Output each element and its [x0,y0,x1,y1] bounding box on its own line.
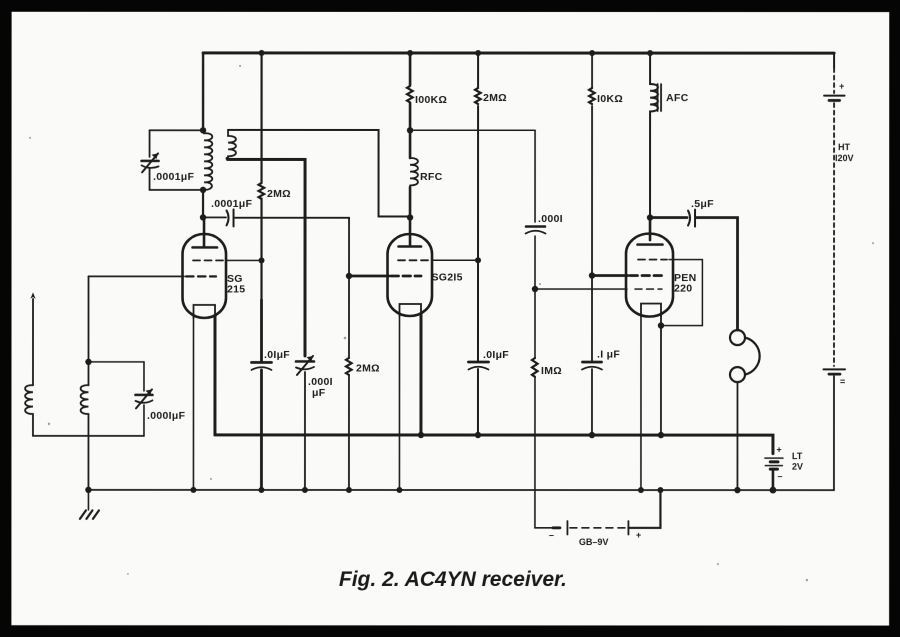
wire: coupling cap to grid leak top [235,218,349,219]
svg-text:.0IμF: .0IμF [264,349,290,361]
node: V2 filament junction on LT+ rail [418,432,424,438]
svg-text:.0IμF: .0IμF [483,349,509,361]
tube V1 control grid (dashed) [186,275,216,277]
wire: reaction coil top to V2 anode (right then down) [228,130,410,217]
svg-text:+: + [636,530,641,540]
svg-text:220: 220 [674,283,692,295]
wire: V2 control grid from grid leak (thick) [349,275,389,278]
wire: .5uF to phones [696,218,737,331]
svg-text:2MΩ: 2MΩ [267,188,291,200]
wire: V2 screen to 2M/.01 node [432,259,478,261]
svg-text:I0KΩ: I0KΩ [597,93,623,105]
node: top rail junction at 10K [589,50,595,56]
node: phones on earth rail [734,487,740,493]
node: top rail junction at 2M (V2 screen) [475,50,481,56]
capacitor .01uF (V1 screen bypass) [251,361,271,364]
node: V3 grid-leak junction [532,286,538,292]
svg-text:I20V: I20V [835,153,854,163]
tube V2 SG215 envelope [388,234,433,316]
wire: tank box bottom edge [150,189,204,191]
tuned anode tank box (top edge) [150,129,204,131]
wire: V1 filament right leg to LT+ rail (thick) [213,316,216,435]
capacitor .5uF (output coupling) [650,216,687,219]
tube V3 PEN220 envelope [626,234,673,317]
node: screen strap on filament leg [658,322,664,328]
resistor 1M ohm (output grid leak) [532,358,538,377]
wire: V2 screen feed line x=478 [477,53,479,435]
node: reaction cap on earth rail [302,487,308,493]
svg-text:.0001μF: .0001μF [153,171,195,183]
node: GB+ on earth rail [657,487,663,493]
node: V2 screen junction [475,257,481,263]
wire: V3 filament right leg to LT+ rail [660,314,662,435]
node: grid leak on earth rail [346,487,352,493]
svg-text:2V: 2V [792,462,803,472]
svg-text:.000IμF: .000IμF [147,410,186,422]
node: V1 screen junction [259,257,265,263]
svg-text:=: = [840,377,845,387]
node: tank bottom junction [200,187,206,193]
node: V2 anode junction [407,214,413,220]
wire: V1 anode to coupling cap [203,216,226,218]
inductor RFC [410,158,418,185]
svg-text:.0001μF: .0001μF [211,198,253,210]
node: V3 filament on earth rail [638,487,644,493]
svg-text:+: + [839,81,844,91]
wire: HT+ top rail [203,51,834,54]
svg-text:–: – [777,471,782,481]
tube V3 control grid (thick dashed) [630,274,663,277]
svg-text:RFC: RFC [420,171,443,183]
wire: V2 filament right leg to LT+ rail (thick) [419,314,422,435]
node: V3 control grid junction [589,272,595,278]
svg-text:Fig. 2. AC4YN receiver.: Fig. 2. AC4YN receiver. [339,568,567,591]
wire: V1 screen to 2M/.01 node [226,259,262,261]
tube V1 filament [194,305,216,318]
ground symbol [87,490,89,510]
node: tank top junction [200,127,206,133]
wire: aerial coil to tank bottom [33,435,144,437]
wire: reaction cap to earth rail [304,372,306,490]
aerial (antenna) lead with arrow [32,299,34,385]
svg-text:2MΩ: 2MΩ [483,92,507,104]
inductor: aerial coupling coil [25,385,33,436]
wire: LT+ rail (thick) [215,435,773,454]
node: LT- on earth rail [770,487,777,494]
node: V1 filament on earth rail [190,487,196,493]
tube V3 filament [641,304,661,317]
svg-text:2MΩ: 2MΩ [356,362,380,374]
svg-text:HT: HT [838,142,851,152]
svg-text:215: 215 [227,283,245,295]
tube V2 filament [400,304,422,316]
variable capacitor .0001uF (aerial tuning) [135,389,152,408]
wire: aerial tank right side upper [143,362,145,391]
svg-text:GB–9V: GB–9V [579,537,609,547]
wire: grid leak line x=349 [348,218,350,490]
node: V3 anode junction [647,214,653,220]
tube V3 inner grid (dashed) [635,288,662,290]
svg-text:.000I: .000I [538,213,563,225]
node: V2 filament on earth rail [396,487,402,493]
wire: V3 screen strap to cathode (box) [662,260,702,326]
wire: tank box left side upper [149,130,151,157]
tube V3 screen grid (dashed) [638,259,667,261]
resistor 2M ohm (detector grid leak) [346,358,352,375]
svg-text:I00KΩ: I00KΩ [415,94,447,106]
svg-text:.I μF: .I μF [597,349,620,361]
scan speckles [29,65,874,581]
node: .01uF on earth rail [258,487,264,493]
resistor 2M ohm (V1 screen feed) [259,183,265,199]
node: top rail junction at AFC [647,50,653,56]
tube V2 screen grid (dashed) [398,259,430,261]
node: .01uF on LT+ rail [475,432,481,438]
variable capacitor .0001uF (reaction) [296,356,314,375]
wire: output grid coupling line x=535 [535,130,553,528]
wire: V1 control grid from aerial tank [89,275,184,277]
svg-text:+: + [776,445,781,455]
wire: aerial tank right side lower [143,405,145,436]
node: earth junction [85,487,91,493]
resistor 10K ohm [589,88,595,104]
node: junction 100K / RFC / AFC coupling [407,127,413,133]
wire: HT+ feed down to tuned-anode coil [202,53,204,130]
battery GB -9V (grid bias) [553,526,560,529]
battery HT 120V [833,53,835,68]
tube V2 anode stem and plate [399,217,422,246]
resistor 2M ohm (V2 screen feed) [475,88,481,104]
wire: tank bottom to V1 anode [202,190,204,218]
svg-text:μF: μF [312,387,326,399]
wire: V3 control grid feed (thick) [592,274,628,277]
capacitor .0001uF (grid coupling V1 anode to detector) [227,209,234,226]
wire: reaction coil bottom to reaction capacitor (thick) [227,158,305,356]
node: .1uF on LT+ rail [589,432,595,438]
wire: 10K line x=592 [591,53,593,435]
wire: aerial tank top edge [88,361,143,363]
inductor: tuned anode coil [204,130,212,190]
wire: junction to V3 inner grid [535,288,627,290]
inductor: reaction coil (secondary) [228,130,236,159]
svg-text:AFC: AFC [666,92,689,104]
svg-text:LT: LT [792,451,803,461]
node: V1 anode junction [200,214,206,220]
node: top rail junction at 2M screen feed [259,50,265,56]
tube V2 control grid (thick dashed) [391,275,421,278]
tube V3 anode stem and plate [638,218,663,245]
wire: anode feed line x=410 (100K + RFC) [409,53,412,217]
capacitor .1uF (grid bypass) [582,361,601,364]
node: aerial tank top [85,359,91,365]
phones (headphones) [730,330,745,345]
capacitor .01uF (V2 screen bypass) [468,361,488,364]
svg-text:.5μF: .5μF [691,198,714,210]
wire: junction to .0001 coupling (to output grid) [410,129,535,131]
tube V1 anode stem and plate [193,217,218,247]
capacitor .0001 (output grid coupling) [526,225,545,228]
wire: phones to earth rail [736,382,738,490]
node: top rail junction at 100K [407,50,413,56]
node: V2 grid junction [346,273,352,279]
wire: V2 filament left leg to earth rail [398,314,400,490]
wire: tank box left side lower [149,169,151,190]
svg-text:–: – [549,530,554,540]
wire: V1 grid line down x=88.5 [87,276,89,490]
variable capacitor .0001uF (tuned anode) [142,153,159,172]
wire: screen feed line x=261.5 [260,53,262,300]
resistor 100K ohm [407,86,413,102]
inductor AFC with core [650,53,658,218]
svg-text:IMΩ: IMΩ [541,365,562,377]
svg-text:SG2I5: SG2I5 [432,271,463,283]
wire: V3 filament left leg to earth rail [640,314,642,490]
node: V3 filament on LT+ rail [658,432,664,438]
inductor: aerial tuned coil [81,385,89,414]
tube V1 screen grid (dashed) [193,259,224,261]
wire: earth / HT- bottom rail [88,489,834,491]
battery LT 2V [765,458,783,490]
tube V1 SG215 envelope [183,234,227,318]
wire: V1 filament left leg to earth rail [192,316,194,490]
